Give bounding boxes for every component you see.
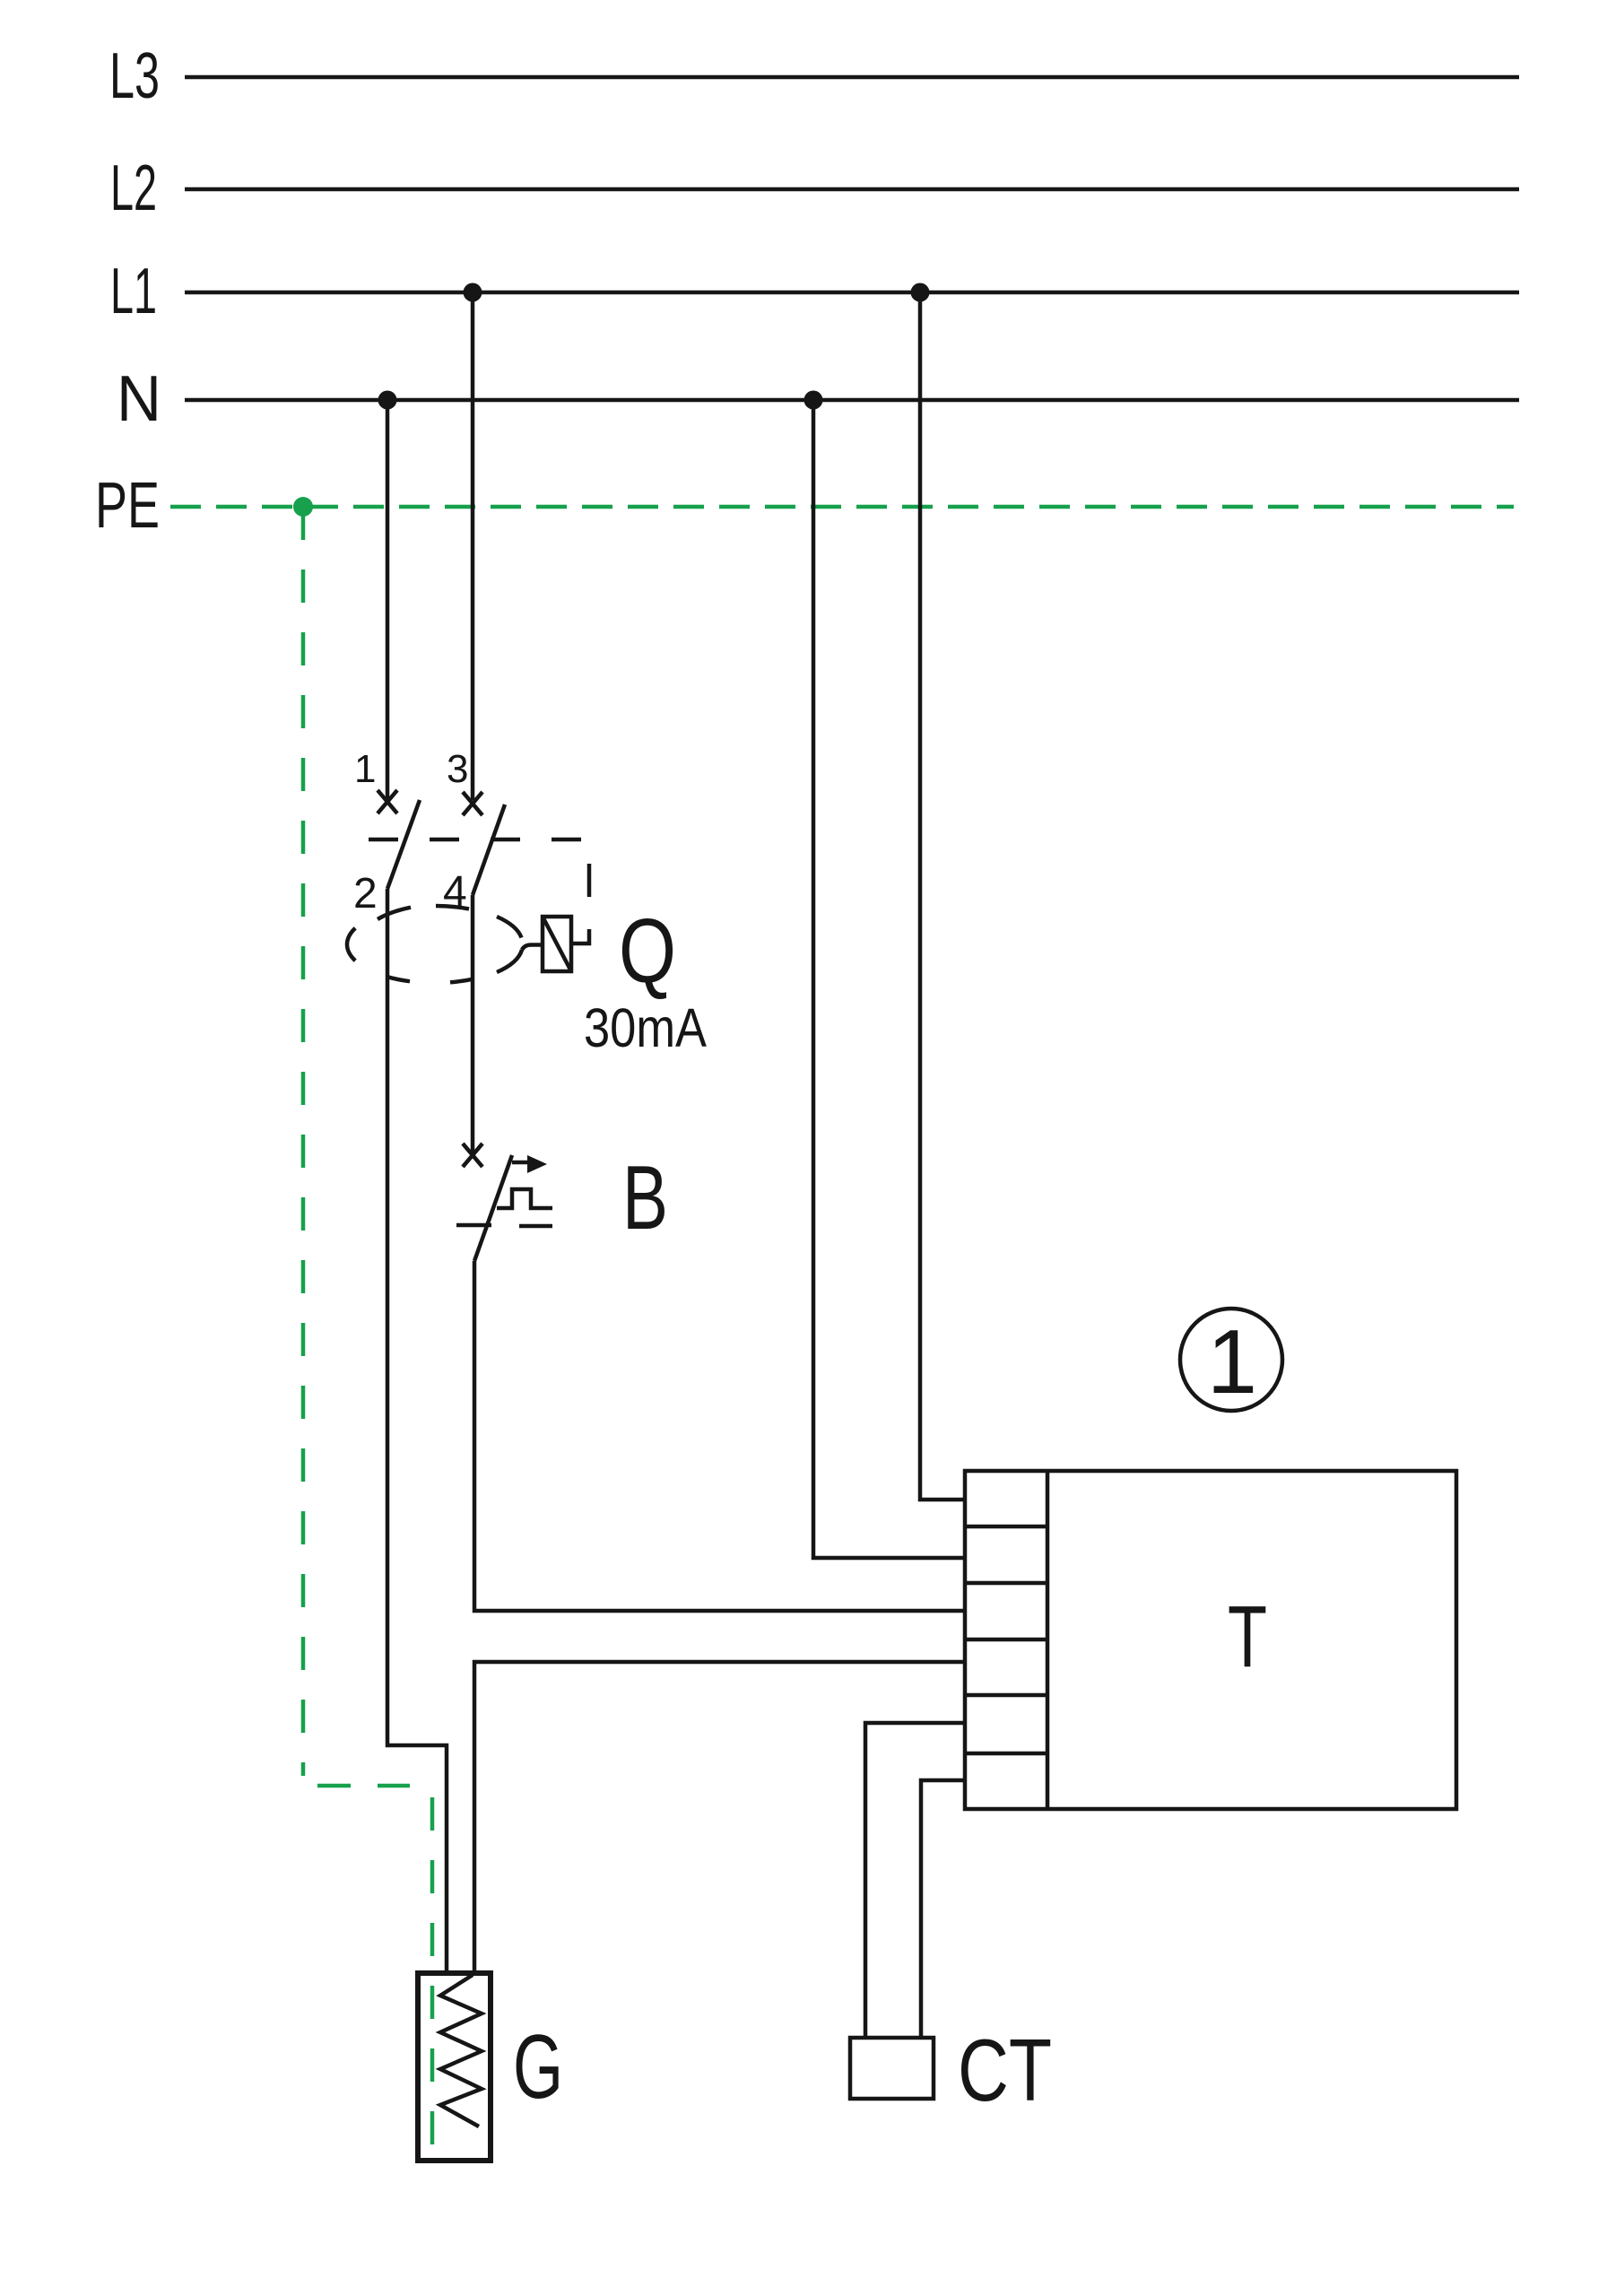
PE drop into G (green dashed) xyxy=(430,1797,435,2151)
blade B xyxy=(474,1155,512,1261)
svg-text:1: 1 xyxy=(1207,1312,1257,1413)
bus L2 xyxy=(185,187,1519,192)
wire L1 drop to RCD pole 3 xyxy=(471,292,475,800)
svg-text:N: N xyxy=(117,363,161,435)
svg-text:1: 1 xyxy=(354,747,376,791)
wire switch B down then right to T terminal 3 xyxy=(474,1261,965,1611)
mechanical linkage dashed xyxy=(369,838,581,842)
junction dot L1/T xyxy=(911,283,930,302)
bus L1 xyxy=(185,291,1519,295)
wire N drop to RCD pole 1 xyxy=(386,400,390,800)
junction dot N/T xyxy=(804,391,823,410)
svg-text:Q: Q xyxy=(619,901,676,1002)
terminal dividers xyxy=(965,1526,1047,1753)
junction dot L1/Q xyxy=(464,283,482,302)
wire RCD pole 4 down to switch B xyxy=(471,895,475,1155)
sensing ring dashed ellipse xyxy=(347,906,473,982)
svg-text:L3: L3 xyxy=(109,40,160,112)
PE drop horizontal jog (green dashed) xyxy=(317,1784,410,1788)
junction dot PE xyxy=(293,497,313,517)
trip linkage dash vertical xyxy=(587,864,592,897)
svg-text:3: 3 xyxy=(447,747,468,791)
circled 1 callout xyxy=(1180,1309,1282,1411)
trip coil box xyxy=(543,917,571,971)
contact x pole 1 xyxy=(378,790,397,813)
trip hook right xyxy=(571,929,589,944)
G zigzag element xyxy=(440,1975,482,2126)
coupling arc upper xyxy=(497,917,522,938)
svg-text:G: G xyxy=(513,2017,563,2118)
svg-text:L1: L1 xyxy=(110,256,157,327)
PE drop wire (green dashed) to G xyxy=(301,507,306,1776)
arrowhead B xyxy=(527,1155,547,1173)
RCD breaker Q xyxy=(347,790,589,982)
wire L1 drop 2 to T terminal 1 xyxy=(920,292,965,1500)
bus N xyxy=(185,398,1519,403)
svg-text:CT: CT xyxy=(958,2021,1052,2119)
link to trip coil xyxy=(522,945,543,951)
svg-text:PE: PE xyxy=(95,470,160,542)
contact x pole 3 xyxy=(463,792,482,815)
blade pole 1-2 xyxy=(387,800,420,889)
wire T terminal 4 left then down to G xyxy=(474,1662,965,1973)
blade pole 3-4 xyxy=(473,804,505,895)
svg-text:2: 2 xyxy=(353,870,378,918)
svg-text:4: 4 xyxy=(443,868,467,916)
svg-text:L2: L2 xyxy=(110,152,157,224)
wire N drop 2 to T terminal 2 xyxy=(813,400,965,1558)
coupling arc lower xyxy=(497,950,522,972)
svg-text:T: T xyxy=(1228,1587,1267,1685)
wire T terminal 5 to CT xyxy=(865,1723,965,2038)
T box xyxy=(965,1471,1456,1809)
heating element G xyxy=(418,1973,491,2161)
trip coil diagonal xyxy=(543,917,571,971)
tick across blade xyxy=(456,1223,491,1228)
terminal column divider xyxy=(1046,1471,1050,1809)
svg-text:30mA: 30mA xyxy=(584,997,707,1058)
contact x B xyxy=(463,1144,482,1167)
svg-text:B: B xyxy=(622,1148,668,1248)
G box xyxy=(418,1973,491,2161)
bus PE (green dashed) xyxy=(170,505,1514,509)
time switch B xyxy=(456,1144,552,1261)
timer unit T xyxy=(965,1471,1456,1809)
wire RCD pole 2 down to jog toward G xyxy=(387,889,447,1973)
clock square wave xyxy=(497,1189,552,1208)
arrow line xyxy=(512,1161,529,1165)
junction dot N/Q xyxy=(378,391,397,410)
dash below wave xyxy=(519,1224,552,1229)
bus L3 xyxy=(185,75,1519,80)
wire T terminal 6 to CT xyxy=(921,1780,965,2038)
current transformer CT xyxy=(850,2038,934,2099)
